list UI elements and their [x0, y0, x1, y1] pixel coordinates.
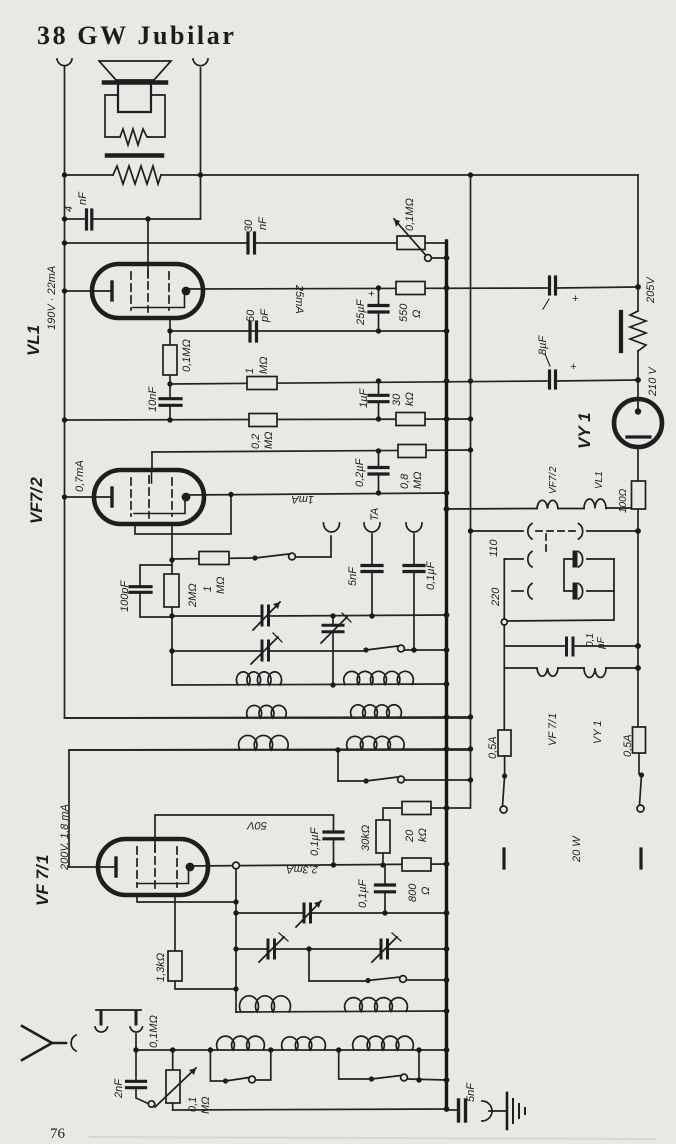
svg-text:5nF: 5nF: [347, 566, 359, 586]
TA terminal cup 1: [324, 523, 340, 532]
fuse 0,5A left: [498, 730, 511, 756]
heater VF7/2 winding: [537, 500, 558, 508]
svg-text:800: 800: [407, 883, 419, 902]
wire coil row 1: [172, 684, 447, 685]
wire 550 ohm bottom row: [170, 330, 447, 332]
wire VF7/2 anode row: [186, 493, 447, 495]
svg-text:25mA: 25mA: [293, 284, 305, 314]
resistor 100 ohm: [632, 481, 646, 509]
mains switch left: [502, 773, 507, 778]
svg-text:VF 7/ 1: VF 7/ 1: [547, 713, 559, 746]
junction circle mains: [501, 619, 507, 625]
wire bottom row: [173, 1109, 447, 1110]
wire 0,1uF b drop: [384, 865, 386, 884]
wire left lower rail: [69, 750, 471, 867]
svg-text:0,7mA: 0,7mA: [74, 460, 86, 492]
wire band switch row: [337, 750, 339, 781]
TA terminal cup 3: [406, 523, 422, 532]
wire trimmer row 3: [236, 912, 303, 914]
svg-text:0,1µF: 0,1µF: [357, 878, 369, 908]
svg-text:550: 550: [398, 303, 410, 322]
wire right thin rail: [383, 175, 471, 820]
svg-text:1,3kΩ: 1,3kΩ: [155, 953, 167, 982]
capacitor 1uF: [378, 381, 380, 395]
wire 30k top lead: [382, 853, 384, 865]
capacitor 0,1uF TA: [404, 564, 424, 567]
speaker voice coil former: [118, 85, 151, 112]
rectifier VY1: [614, 399, 662, 447]
svg-text:20: 20: [404, 829, 416, 843]
potentiometer 0,1M tone: [397, 236, 425, 250]
svg-text:MΩ: MΩ: [263, 431, 275, 449]
trimmer cap row4 right: [380, 940, 383, 958]
speaker terminal left: [57, 59, 72, 66]
wire VF7/2 grid chain: [171, 524, 173, 574]
svg-text:VF7/ 2: VF7/ 2: [27, 477, 46, 524]
wire speaker terminal rail right: [200, 68, 202, 219]
svg-text:kΩ: kΩ: [417, 828, 429, 842]
heater VF7/1 winding: [537, 668, 558, 676]
HT bus thick: [445, 241, 448, 1109]
ground: [506, 1093, 509, 1129]
wire padder drop: [332, 616, 334, 624]
wire VL1 bottom drop: [169, 318, 171, 345]
resistor 1,3k: [168, 951, 182, 981]
coil L8: [345, 998, 408, 1012]
switch TA: [252, 555, 257, 560]
output transformer secondary: [113, 166, 161, 184]
wire 1M row: [170, 381, 547, 384]
heater VY1 winding: [584, 668, 606, 678]
svg-text:1mA: 1mA: [291, 493, 314, 505]
svg-text:30kΩ: 30kΩ: [360, 825, 372, 851]
barretter resistor on right rail: [619, 312, 623, 351]
wire coil row 2: [65, 717, 471, 718]
wire VF7/2 screen loop: [135, 495, 231, 534]
svg-text:210 V: 210 V: [647, 366, 659, 397]
selector plug 220: [573, 585, 578, 597]
coil L9: [217, 1036, 265, 1050]
wire VF7/1 cathode lead: [69, 866, 98, 868]
svg-text:+: +: [572, 293, 579, 305]
resistor 0,2M: [249, 414, 277, 427]
capacitor 0,1uF cathode: [376, 883, 395, 886]
svg-text:1µF: 1µF: [358, 388, 370, 408]
svg-text:+: +: [570, 361, 577, 373]
resistor 1M osc grid: [199, 552, 229, 565]
svg-text:MΩ: MΩ: [258, 356, 270, 374]
switch osc row: [365, 978, 370, 983]
wire 190V row: [65, 242, 247, 244]
selector row plug: [504, 558, 523, 560]
svg-text:µF: µF: [596, 636, 607, 649]
svg-text:50: 50: [245, 309, 257, 322]
svg-text:+: +: [366, 290, 378, 297]
svg-text:VL1: VL1: [24, 325, 43, 356]
resistor 800 ohm: [402, 858, 431, 871]
wire trimmer row 4: [236, 948, 267, 950]
svg-text:2nF: 2nF: [113, 1078, 125, 1099]
svg-text:0,1: 0,1: [585, 633, 596, 647]
wire 4nF row: [65, 218, 85, 220]
svg-text:TA: TA: [369, 508, 381, 521]
svg-text:VL1: VL1: [594, 471, 605, 489]
svg-text:2MΩ: 2MΩ: [187, 583, 199, 608]
svg-text:110: 110: [488, 539, 500, 557]
svg-text:100Ω: 100Ω: [618, 488, 629, 513]
svg-text:100pF: 100pF: [119, 580, 131, 612]
capacitor 8uF upper: [548, 277, 551, 294]
tube VF7/1: [98, 839, 208, 895]
svg-text:1: 1: [244, 368, 256, 374]
svg-text:0,1µF: 0,1µF: [425, 560, 437, 590]
svg-text:pF: pF: [259, 308, 271, 323]
wire osc grid row: [172, 558, 252, 559]
resistor 1M: [247, 377, 277, 390]
svg-text:0,5A: 0,5A: [487, 736, 499, 759]
potentiometer 0,1M volume: [166, 1070, 180, 1103]
switch band row: [363, 778, 368, 783]
svg-text:30: 30: [391, 393, 403, 406]
svg-text:4: 4: [63, 206, 75, 212]
trimmer cap padder: [323, 624, 343, 627]
svg-text:nF: nF: [77, 191, 89, 205]
coil L4: [351, 705, 402, 718]
svg-text:0,8: 0,8: [399, 473, 411, 489]
wire VL1 anode row: [186, 288, 547, 289]
coil L6: [347, 736, 405, 749]
switch row2: [363, 647, 368, 652]
coil L1: [236, 672, 281, 685]
wire right rail: [637, 175, 639, 311]
svg-text:50V: 50V: [246, 819, 267, 831]
capacitor 5nF ground: [447, 1109, 458, 1111]
svg-text:205V: 205V: [645, 276, 657, 304]
wire wave switch A: [210, 1050, 223, 1081]
chassis cup: [482, 1101, 492, 1121]
wire VF7/2 cathode lead: [65, 496, 95, 498]
wire TA 0,1uF drop: [413, 534, 415, 564]
svg-text:VY 1: VY 1: [575, 412, 594, 449]
svg-text:0,1MΩ: 0,1MΩ: [181, 339, 193, 372]
svg-text:0,1MΩ: 0,1MΩ: [404, 198, 416, 231]
svg-text:8µF: 8µF: [537, 335, 549, 355]
capacitor 50pF: [248, 322, 251, 341]
svg-text:0,1µF: 0,1µF: [309, 826, 321, 856]
coil L10: [282, 1037, 326, 1050]
coil L7: [239, 996, 290, 1012]
test point circle: [233, 862, 240, 869]
output transformer core: [107, 153, 162, 158]
svg-text:VF7/ 2: VF7/ 2: [548, 466, 559, 494]
wire left rail: [65, 67, 471, 718]
capacitor 0,2uF: [378, 451, 380, 467]
svg-text:MΩ: MΩ: [215, 576, 227, 594]
speaker cone: [99, 61, 171, 80]
wire coil row 3: [69, 749, 471, 750]
heater VL1 winding: [584, 499, 606, 508]
svg-text:38 GW Jubilar: 38 GW Jubilar: [37, 21, 236, 50]
wire 0,8M row: [152, 450, 471, 452]
wire grid leak row: [65, 419, 471, 420]
capacitor 5nF TA: [362, 564, 382, 567]
svg-text:76: 76: [50, 1126, 66, 1142]
svg-text:0,1MΩ: 0,1MΩ: [148, 1015, 160, 1048]
trimmer cap row4 left: [267, 940, 270, 958]
svg-text:10nF: 10nF: [147, 386, 159, 412]
resistor 0,8M: [398, 445, 426, 458]
heater row wire: [447, 508, 538, 511]
speaker magnet frame: [105, 95, 120, 137]
coil L5: [239, 735, 289, 750]
wire TA 5nF drop: [371, 534, 373, 564]
mains switch right: [639, 772, 644, 777]
wire VF7/1 screen loop: [137, 895, 236, 902]
selector cup 220: [512, 590, 523, 592]
resistor 550 ohm: [396, 282, 425, 295]
svg-text:MΩ: MΩ: [412, 471, 424, 489]
wire AGC drop: [235, 869, 237, 1012]
coil L3: [247, 705, 287, 718]
resistor 30k screen: [376, 820, 390, 853]
wire wave switch B: [339, 1050, 369, 1079]
wire VL1 cathode row: [65, 290, 95, 292]
capacitor 25uF electrolytic: [378, 288, 380, 305]
svg-text:200V, 1,8 mA: 200V, 1,8 mA: [59, 804, 71, 871]
svg-text:MΩ: MΩ: [200, 1096, 212, 1114]
svg-text:Ω: Ω: [411, 310, 423, 318]
antenna sockets: [96, 1009, 141, 1011]
wire 100pF loop: [140, 565, 172, 586]
svg-text:30: 30: [243, 219, 255, 232]
svg-text:0,2: 0,2: [250, 434, 262, 449]
switch wave A: [223, 1078, 228, 1083]
svg-text:190V · 22mA: 190V · 22mA: [46, 266, 58, 330]
wire trimmer row 2: [172, 650, 261, 652]
wire trimmer row 1: [172, 615, 261, 617]
svg-text:20 W: 20 W: [571, 835, 583, 863]
mains prong left: [502, 849, 505, 868]
wire cathode resistor chain: [174, 895, 176, 951]
resistor 0,1M grid VL1: [163, 345, 177, 375]
capacitor 100pF: [130, 585, 151, 588]
wire osc switch row: [308, 949, 310, 981]
capacitor 0,1uF mains: [504, 645, 564, 647]
svg-text:kΩ: kΩ: [404, 392, 416, 406]
svg-text:5nF: 5nF: [465, 1082, 477, 1102]
trimmer cap row1: [261, 606, 264, 625]
tube VF7/2: [94, 470, 204, 524]
svg-text:Ω: Ω: [420, 887, 432, 895]
fuse 0,5A right: [633, 727, 646, 753]
resistor 30k: [396, 413, 425, 426]
svg-text:nF: nF: [257, 216, 269, 230]
svg-text:0,2µF: 0,2µF: [354, 457, 366, 487]
resistor 2M: [164, 574, 179, 607]
coil L11: [353, 1036, 414, 1050]
svg-text:0,5A: 0,5A: [622, 734, 634, 757]
coil L2: [344, 671, 414, 684]
trimmer cap row2: [261, 641, 264, 660]
capacitor 4nF: [85, 210, 88, 229]
mains prong right: [639, 849, 642, 868]
capacitor 10nF: [160, 397, 181, 400]
switch wave B: [369, 1076, 374, 1081]
wire VF7/1 anode row: [190, 864, 447, 866]
svg-text:0,1: 0,1: [187, 1097, 199, 1112]
capacitor 2nF: [127, 1080, 146, 1083]
resistor 20k: [402, 802, 431, 815]
output transformer primary: [120, 129, 149, 145]
capacitor 0,1uF screen: [324, 830, 343, 833]
speaker terminal right: [193, 59, 208, 66]
svg-text:2,3mA: 2,3mA: [286, 863, 319, 875]
wire 2nF chain: [135, 1034, 137, 1050]
mains vertical left: [503, 559, 505, 619]
capacitor 8uF lower: [548, 371, 551, 388]
wire VL1 grid drop: [147, 219, 149, 264]
svg-text:25µF: 25µF: [355, 298, 367, 326]
wire ant coil row: [236, 1011, 447, 1012]
trimmer cap row3: [303, 904, 306, 922]
selector link: [564, 559, 572, 591]
TA terminal cup 2: [364, 523, 380, 532]
heater row 2 wire: [504, 667, 537, 669]
wire VF7/1 grid row 50V: [155, 815, 334, 839]
wire vol pot leads: [172, 1050, 174, 1070]
svg-text:1: 1: [202, 586, 214, 592]
capacitor 30nF: [246, 233, 249, 253]
tube VL1: [92, 264, 203, 318]
svg-text:VY 1: VY 1: [592, 720, 604, 744]
wire top HT row: [65, 174, 114, 176]
wire input coil row: [136, 1049, 447, 1051]
svg-text:VF 7/ 1: VF 7/ 1: [33, 855, 52, 907]
antenna symbol: [22, 1026, 52, 1060]
selector row 110: [471, 530, 524, 532]
svg-text:220: 220: [490, 587, 502, 607]
